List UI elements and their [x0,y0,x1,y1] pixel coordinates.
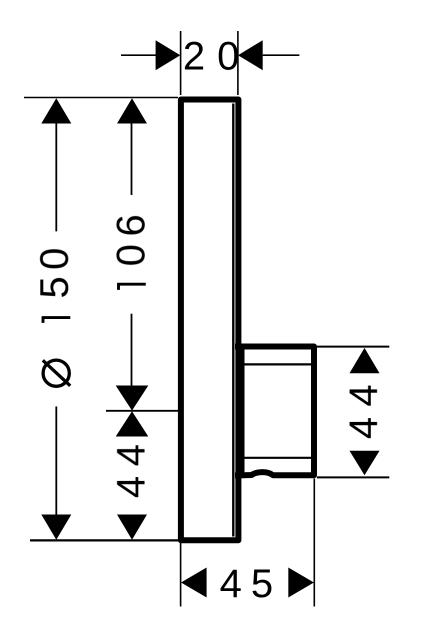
svg-text:0: 0 [33,248,77,270]
dimension D150: text 150 (rotated) [42,317,71,323]
dimension D150: upper stem [55,123,57,231]
dimension D150: lower stem [55,407,57,515]
svg-text:4: 4 [342,384,386,406]
dimension 44 right: bottom arrow [350,451,380,476]
dimension 45: left arrow [181,568,207,598]
extension line right 44 bottom [317,476,389,478]
extension line top-left of 20 dim [180,31,182,95]
plate body (escutcheon, thick outline) [181,100,239,541]
top horizontal extension line [24,97,178,99]
dimension 44 left: top arrow [116,411,149,436]
housing inner line upper [244,363,311,365]
cartridge housing box (thick outline) [238,347,314,476]
dimension D150: bottom arrow [41,515,71,540]
dimension 106: upper stem [131,123,133,195]
dimension D150: diameter symbol slash [43,360,70,386]
extension line top-right of 20 dim [237,31,239,95]
dimension D150: top arrow [41,98,71,123]
dimension 44 right: top arrow [350,348,380,373]
svg-text:2: 2 [183,35,205,79]
dimension 20: left arrow [156,40,181,70]
dimension 20: right arrow [238,40,263,70]
bottom horizontal extension line [30,539,179,541]
svg-text:4: 4 [110,476,154,498]
housing left wall [240,344,245,478]
extension line bottom-left of 45 dim [180,542,182,607]
svg-text:4: 4 [220,562,242,606]
extension line right 44 top [317,346,389,348]
dimension 106: bottom arrow [116,386,149,411]
svg-text:0: 0 [110,244,154,266]
svg-text:4: 4 [110,444,154,466]
svg-text:6: 6 [110,214,154,236]
tick line at 106/44 boundary [106,410,179,412]
dimension 20: right leader line [263,54,300,56]
dimension 20: left leader line [121,54,157,56]
svg-text:5: 5 [33,276,77,298]
plate front-face inner edge line [232,104,234,537]
svg-text:4: 4 [342,417,386,439]
dimension D150: diameter symbol circle [43,360,69,386]
dimension 106: text (rotated) [117,283,146,290]
dimension 44 left: bottom arrow [117,515,147,540]
dimension 106: lower stem [131,314,133,386]
housing inner line lower [244,457,311,459]
svg-text:0: 0 [217,35,239,79]
dimension 106: top arrow [117,98,147,123]
dimension 45: right arrow [288,568,314,598]
extension line bottom-right of 45 dim [313,479,315,607]
svg-text:5: 5 [251,562,273,606]
